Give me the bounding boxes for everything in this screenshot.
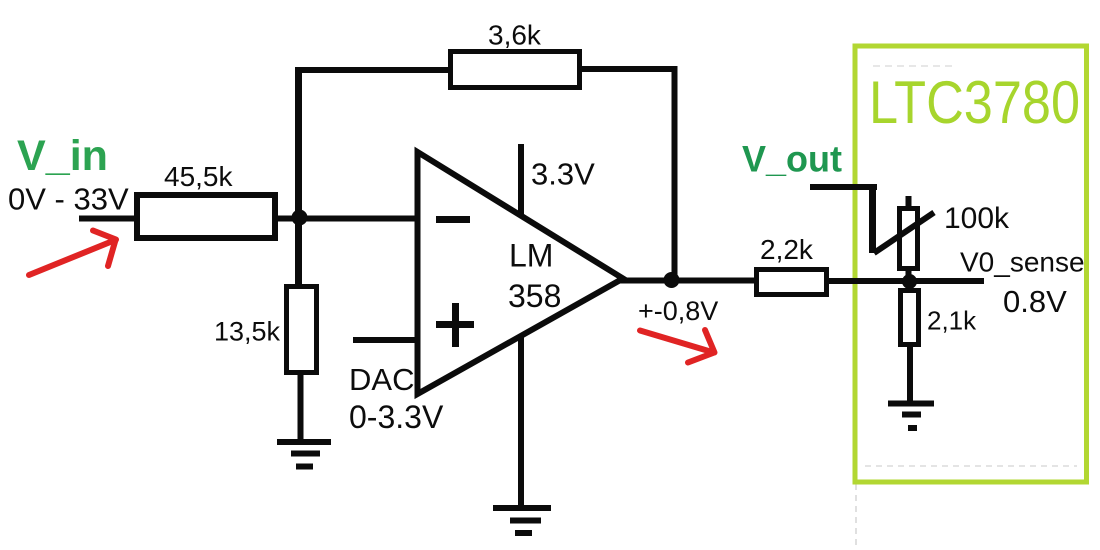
svg-text:2,1k: 2,1k xyxy=(927,306,977,336)
svg-text:DAC: DAC xyxy=(349,362,414,397)
svg-text:V_out: V_out xyxy=(742,139,842,180)
svg-text:0-3.3V: 0-3.3V xyxy=(349,399,444,435)
svg-text:LTC3780: LTC3780 xyxy=(869,69,1080,136)
svg-text:3,6k: 3,6k xyxy=(488,20,542,51)
svg-text:100k: 100k xyxy=(944,202,1010,235)
svg-text:LM: LM xyxy=(509,238,553,274)
svg-text:3.3V: 3.3V xyxy=(531,157,595,192)
svg-text:358: 358 xyxy=(508,278,561,314)
svg-text:0V - 33V: 0V - 33V xyxy=(8,182,129,217)
svg-text:13,5k: 13,5k xyxy=(214,317,281,347)
svg-text:2,2k: 2,2k xyxy=(760,234,814,265)
svg-text:45,5k: 45,5k xyxy=(164,161,233,192)
svg-text:+-0,8V: +-0,8V xyxy=(638,296,718,326)
svg-text:V0_sense: V0_sense xyxy=(960,247,1085,278)
svg-text:V_in: V_in xyxy=(17,132,108,180)
svg-text:0.8V: 0.8V xyxy=(1003,284,1067,319)
